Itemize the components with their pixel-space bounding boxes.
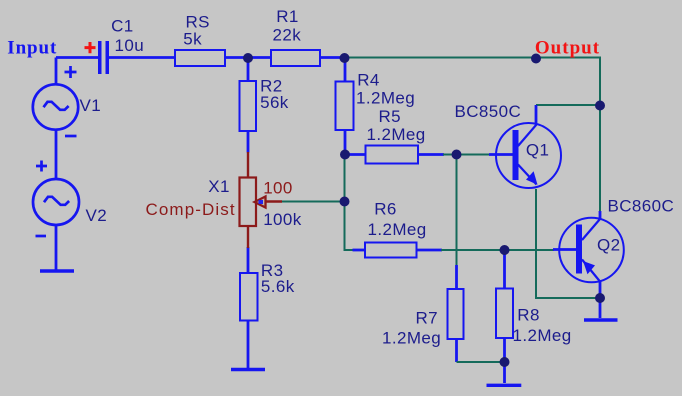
ground below V2 [40, 269, 74, 272]
node Q2 emitter ground [595, 293, 605, 303]
node output tap [531, 54, 541, 64]
wire C1 to RS [109, 56, 175, 59]
svg-text:C1: C1 [111, 16, 134, 35]
svg-text:R6: R6 [374, 199, 397, 218]
svg-text:1.2Meg: 1.2Meg [368, 220, 427, 239]
svg-text:Comp-Dist: Comp-Dist [146, 200, 236, 219]
wire R3 top lead [247, 247, 250, 273]
wire R2 top lead [247, 58, 250, 82]
voltage source V2 [33, 161, 79, 237]
wire R5 to Q1 base green [443, 154, 490, 156]
wire R5 right lead [418, 153, 444, 156]
svg-text:22k: 22k [273, 25, 302, 44]
resistor R6 [365, 243, 417, 258]
resistor R4 [336, 82, 354, 131]
wire V2 to ground [55, 224, 58, 270]
svg-text:BC860C: BC860C [608, 196, 675, 215]
node R6 R8 [500, 245, 510, 255]
wire R1 to node B [320, 56, 346, 59]
svg-text:R4: R4 [357, 70, 380, 89]
svg-text:X1: X1 [208, 177, 230, 196]
wire R3 bottom lead [247, 321, 250, 369]
label R3 [261, 261, 295, 296]
ground below R3 [231, 368, 265, 371]
label R8 [513, 306, 572, 346]
svg-text:Q2: Q2 [597, 236, 620, 255]
voltage source V1 [33, 66, 78, 136]
resistor RS [175, 50, 225, 66]
wire Q2 collector stub [599, 211, 602, 219]
resistor R2 [240, 81, 257, 131]
label R6 [368, 199, 427, 238]
wire R5 left lead [345, 153, 366, 156]
wire R8 top lead [503, 250, 506, 289]
node R1 R4 output [340, 53, 350, 63]
svg-text:R7: R7 [416, 309, 439, 328]
wire V1 top lead [55, 58, 58, 86]
wire R2 bottom lead [247, 131, 250, 153]
svg-text:10u: 10u [115, 36, 145, 55]
svg-text:V2: V2 [86, 206, 108, 225]
resistor R1 [271, 50, 320, 66]
wire Q1 collector to output vertical [536, 104, 600, 106]
resistor R5 [366, 146, 419, 164]
svg-text:1.2Meg: 1.2Meg [367, 125, 426, 144]
transistor Q1 [496, 123, 561, 188]
label R1 [273, 7, 302, 44]
resistor R8 [496, 289, 513, 339]
svg-text:1.2Meg: 1.2Meg [382, 329, 441, 348]
wire R8 bottom lead [503, 338, 506, 362]
wire Q2 emitter stub [599, 280, 602, 298]
resistor R7 [448, 289, 464, 339]
wire R6 left lead [353, 249, 366, 252]
wire Q2 ground stub [599, 298, 602, 318]
ground below Q2 [584, 318, 618, 321]
wire R6 right lead [417, 249, 443, 252]
svg-text:R1: R1 [276, 7, 299, 26]
svg-text:Q1: Q1 [526, 141, 549, 160]
potentiometer X1 [240, 152, 283, 248]
capacitor C1 [85, 41, 110, 74]
wire R6 to Q2 base green [441, 249, 554, 251]
wire V1 to V2 [55, 129, 58, 180]
node R4 R5 [340, 150, 350, 160]
wire R4 top lead [344, 58, 347, 82]
label X1 [146, 177, 236, 219]
node Q1 collector join [595, 101, 605, 111]
transistor Q2 [553, 218, 624, 283]
wire R7 bottom lead [455, 339, 458, 362]
svg-text:1.2Meg: 1.2Meg [356, 89, 415, 108]
node R5 Q1 base [452, 150, 462, 160]
label C1 [111, 16, 144, 55]
node RS R1 R2 [243, 53, 253, 63]
wire node C down to wiper node [345, 155, 354, 251]
label R5 [367, 107, 426, 144]
wire output net green [344, 58, 600, 213]
ground below R7 R8 [487, 384, 522, 387]
label R7 [382, 309, 441, 348]
wire Q1 collector stub [535, 105, 538, 124]
label X1 values [263, 179, 302, 229]
node wiper join [340, 197, 350, 207]
svg-text:V1: V1 [80, 96, 102, 115]
svg-text:1.2Meg: 1.2Meg [513, 326, 572, 345]
wire vertical R5 node to R7 green [456, 155, 458, 267]
wire Q1 emitter down and across green [536, 189, 600, 298]
svg-text:R5: R5 [379, 107, 402, 126]
svg-text:R8: R8 [517, 306, 540, 325]
label RS [183, 12, 210, 48]
svg-text:BC850C: BC850C [455, 102, 522, 121]
wire R4 bottom lead [344, 130, 347, 155]
wire R7 top lead [455, 265, 458, 289]
wire pot wiper green [281, 201, 346, 203]
resistor R3 [240, 273, 258, 321]
node R7 R8 ground [500, 357, 510, 367]
wire ground stub below R7 R8 node [503, 362, 506, 383]
label R4 [356, 70, 415, 107]
svg-text:Output: Output [535, 38, 600, 59]
wire input corner [56, 56, 98, 59]
svg-text:100k: 100k [263, 210, 302, 229]
svg-text:56k: 56k [260, 93, 289, 112]
label R2 [260, 77, 289, 113]
svg-text:100: 100 [263, 179, 293, 198]
svg-text:5k: 5k [183, 29, 202, 48]
wire Q1 base stub [489, 153, 513, 156]
svg-text:5.6k: 5.6k [261, 277, 295, 296]
svg-text:Input: Input [7, 37, 57, 58]
wire R7 to R8 bottom green [457, 361, 505, 363]
wire RS to R1 through node [225, 56, 271, 59]
